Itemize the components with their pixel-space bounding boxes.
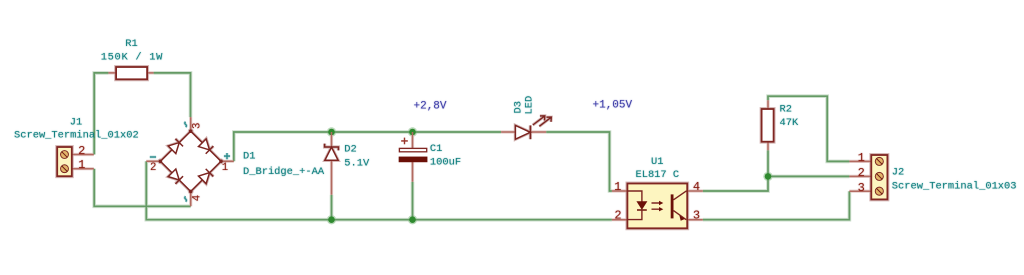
svg-text:1: 1 — [614, 180, 621, 194]
svg-text:R2: R2 — [780, 104, 792, 116]
svg-text:47K: 47K — [780, 117, 799, 129]
svg-text:LED: LED — [523, 96, 535, 115]
svg-text:D_Bridge_+-AA: D_Bridge_+-AA — [243, 166, 325, 178]
svg-text:2: 2 — [78, 144, 85, 158]
svg-text:100uF: 100uF — [430, 157, 461, 169]
svg-text:4: 4 — [191, 195, 203, 201]
svg-text:U1: U1 — [651, 156, 663, 168]
svg-text:2: 2 — [614, 209, 621, 223]
svg-text:1: 1 — [858, 151, 865, 165]
svg-text:5.1V: 5.1V — [344, 157, 370, 169]
svg-text:J2: J2 — [892, 166, 904, 178]
svg-text:2: 2 — [150, 162, 156, 174]
svg-text:3: 3 — [858, 181, 865, 195]
svg-text:D2: D2 — [344, 144, 356, 156]
svg-text:1: 1 — [78, 158, 85, 172]
svg-text:3: 3 — [192, 123, 204, 129]
svg-text:4: 4 — [693, 180, 700, 194]
schematic artwork soft halo pass — [57, 67, 887, 228]
svg-text:1: 1 — [222, 162, 228, 174]
svg-text:+1,05V: +1,05V — [593, 99, 633, 111]
svg-text:C1: C1 — [430, 143, 442, 155]
svg-text:+2,8V: +2,8V — [414, 101, 447, 113]
svg-text:150K / 1W: 150K / 1W — [101, 51, 163, 63]
svg-text:D1: D1 — [243, 151, 255, 163]
svg-text:3: 3 — [693, 209, 700, 223]
svg-text:EL817 C: EL817 C — [635, 169, 679, 181]
svg-text:Screw_Terminal_01x03: Screw_Terminal_01x03 — [892, 181, 1017, 193]
svg-text:R1: R1 — [125, 38, 137, 50]
schematic artwork core pass — [57, 67, 887, 228]
svg-text:J1: J1 — [70, 117, 82, 129]
svg-text:2: 2 — [858, 166, 865, 180]
svg-text:Screw_Terminal_01x02: Screw_Terminal_01x02 — [14, 130, 139, 142]
